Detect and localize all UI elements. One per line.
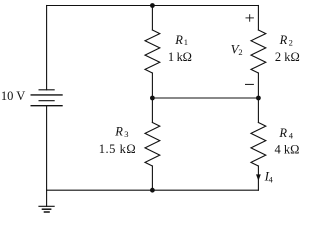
svg-text:4: 4 [289, 131, 294, 141]
svg-text:4 kΩ: 4 kΩ [275, 143, 300, 157]
svg-text:R: R [114, 125, 123, 139]
svg-text:R: R [278, 126, 287, 140]
resistor R2 [251, 30, 266, 73]
wire: right branch top (corner to R2) [257, 6, 259, 31]
wire: R1 bottom to middle node [151, 73, 153, 98]
wire: R4 bottom to bottom-right corner (carries I4) [257, 166, 259, 190]
resistor R1 [145, 30, 160, 73]
node B: middle junction left (R1/R3) [150, 96, 155, 101]
wire: R3 bottom to bottom node [151, 166, 153, 190]
wire: top rail [47, 5, 259, 7]
battery V1 (10 V source) [31, 90, 63, 106]
wire: middle branch top node to R1 [151, 6, 153, 31]
svg-text:2: 2 [289, 37, 293, 47]
battery plate: top short [39, 89, 55, 91]
resistor R4 [251, 123, 266, 167]
svg-text:1: 1 [184, 37, 188, 47]
ground [38, 206, 54, 212]
wire: middle node to R3 [151, 98, 153, 123]
node D: bottom junction (R3/bottom rail) [150, 188, 155, 193]
svg-text:2: 2 [238, 47, 242, 57]
svg-text:R: R [279, 33, 288, 47]
label: minus sign of V2 [245, 83, 254, 85]
svg-text:R: R [174, 33, 183, 47]
svg-text:4: 4 [269, 175, 274, 185]
wire: bottom rail [47, 189, 259, 191]
node A: top junction of R1 branch [150, 3, 155, 8]
svg-text:1 kΩ: 1 kΩ [168, 50, 192, 64]
wire: battery bottom to bottom rail [46, 106, 48, 191]
current arrow I4 [256, 174, 261, 180]
battery plate: bottom long [31, 105, 63, 107]
battery plate: short [39, 100, 55, 102]
svg-text:2 kΩ: 2 kΩ [275, 50, 300, 64]
svg-text:3: 3 [124, 129, 128, 139]
svg-text:10 V: 10 V [1, 89, 25, 103]
wire: middle rail [152, 97, 258, 99]
wire: left rail top (to battery) [46, 6, 48, 90]
resistor R3 [145, 123, 160, 167]
wire: right middle node to R4 [257, 98, 259, 123]
svg-text:1.5 kΩ: 1.5 kΩ [99, 142, 137, 156]
node C: middle junction right (R2/R4) [256, 96, 261, 101]
wire: bottom rail junction to ground [46, 190, 48, 206]
wire: R2 bottom to right middle node [257, 73, 259, 98]
battery plate: long [31, 94, 63, 96]
label: plus sign of V2 [246, 14, 254, 22]
